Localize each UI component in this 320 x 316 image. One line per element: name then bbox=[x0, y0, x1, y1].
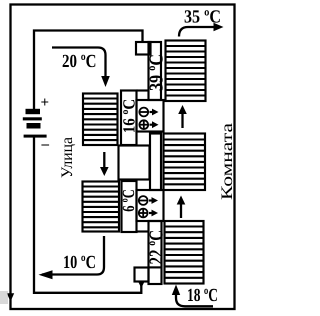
carrier minus stage2 bbox=[139, 196, 148, 205]
arrow air up (rad C to D) bbox=[181, 113, 183, 128]
svg-text:39 ºС: 39 ºС bbox=[147, 54, 168, 91]
plate 39C (hot plate, stage 1) bbox=[149, 42, 162, 100]
radiator D (room middle) bbox=[164, 134, 206, 191]
carrier minus stage1 bbox=[139, 108, 148, 117]
svg-text:Комната: Комната bbox=[219, 123, 236, 200]
svg-text:18 ºС: 18 ºС bbox=[187, 286, 218, 306]
junction box J1 (stage1 carriers) bbox=[137, 100, 164, 132]
plate 6C (cold plate, stage 2) bbox=[122, 181, 137, 232]
arrow air up (rad E to D) bbox=[180, 204, 182, 219]
plate 16C (cold plate, stage 1) bbox=[121, 91, 137, 146]
plate D (middle plate) bbox=[150, 134, 161, 191]
radiator B (street bottom) bbox=[83, 182, 120, 232]
junction box J2 (stage2 carriers) bbox=[137, 190, 164, 221]
middle box M (between stages) bbox=[119, 146, 150, 180]
svg-text:–: – bbox=[41, 137, 50, 153]
arrow air down (between street radiators) bbox=[103, 152, 105, 168]
svg-text:20 ºС: 20 ºС bbox=[62, 52, 97, 72]
node tab T2 (bottom connector) bbox=[135, 268, 149, 282]
arrow in 18C bbox=[176, 294, 213, 306]
outer border wire bbox=[11, 5, 235, 310]
arrow in 20C bbox=[52, 48, 106, 78]
node tab T1 (top connector) bbox=[136, 42, 151, 55]
radiator C (room top) bbox=[166, 41, 206, 102]
border current arrowhead bbox=[7, 293, 14, 301]
battery B1 bbox=[23, 109, 47, 138]
wire battery minus to bottom tab bbox=[34, 137, 141, 293]
arrow out 10C bbox=[42, 236, 104, 275]
wire battery plus to top tab bbox=[34, 31, 143, 111]
carrier plus stage1 bbox=[139, 120, 148, 129]
svg-text:+: + bbox=[41, 95, 50, 111]
svg-text:10 ºС: 10 ºС bbox=[63, 253, 96, 273]
radiator E (room bottom) bbox=[165, 221, 204, 284]
plate 22C (hot plate, stage 2) bbox=[149, 221, 162, 284]
svg-text:Улица: Улица bbox=[59, 137, 76, 178]
carrier plus stage2 bbox=[139, 209, 148, 218]
cap line 16C to 39C bbox=[137, 89, 149, 91]
arrow out 35C bbox=[179, 27, 215, 37]
svg-text:6 ºС: 6 ºС bbox=[119, 189, 138, 212]
svg-text:35 ºС: 35 ºС bbox=[184, 8, 221, 28]
radiator A (street top) bbox=[83, 94, 118, 146]
